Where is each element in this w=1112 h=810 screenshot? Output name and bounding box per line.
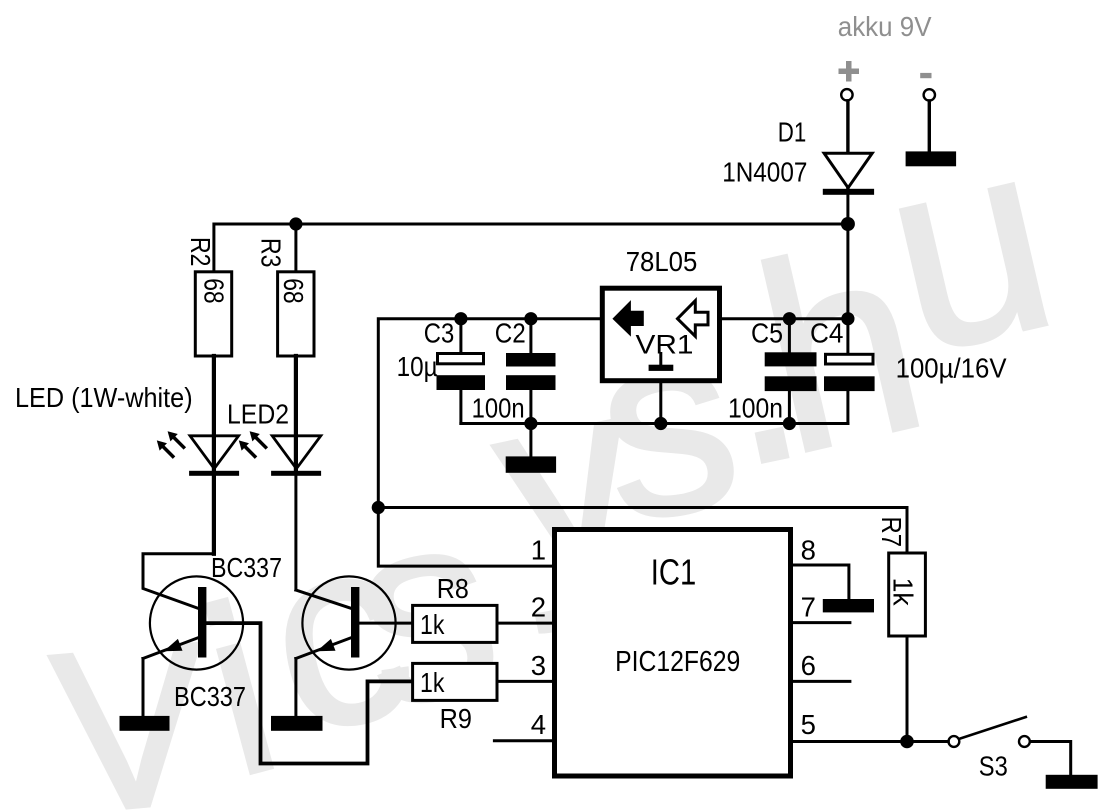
transistor Q1 (143, 554, 243, 717)
wire D1 to rail junction (846, 194, 849, 319)
svg-text:LED2: LED2 (227, 398, 289, 429)
LED1 cathode bar (189, 471, 239, 476)
wire top rail to R2/R3 (214, 224, 848, 272)
svg-text:PIC12F629: PIC12F629 (615, 646, 740, 678)
wire Q2 base to R8 (359, 622, 412, 625)
wire VR1 to gnd rail (659, 381, 662, 424)
wire pin6 stub (793, 680, 850, 683)
diode D1 triangle (824, 153, 872, 188)
node C4 (841, 312, 854, 325)
node gnd rail C5 (783, 417, 796, 430)
svg-text:D1: D1 (778, 116, 807, 147)
svg-text:R8: R8 (437, 573, 469, 604)
svg-text:4: 4 (531, 709, 546, 740)
diode D1 cathode bar (823, 189, 874, 195)
wire - terminal to ground (928, 101, 931, 152)
wire pin7 stub (793, 621, 850, 624)
plus terminal label (839, 61, 860, 82)
node gnd rail C2 (524, 417, 537, 430)
capacitor C3 (polarized) (459, 319, 462, 353)
svg-text:R9: R9 (440, 703, 472, 734)
ground (Q2 emitter) (271, 716, 323, 731)
ground (battery minus) (906, 151, 957, 166)
wire Q1 base to R9 (206, 623, 412, 763)
svg-text:R3: R3 (255, 238, 286, 268)
svg-text:C2: C2 (495, 317, 526, 348)
node C2 (524, 312, 537, 325)
ground (Q1 emitter) (120, 716, 170, 731)
svg-text:6: 6 (801, 650, 816, 681)
wire R7 top lead (906, 508, 909, 554)
resistor R2 body (195, 272, 231, 356)
svg-text:1k: 1k (420, 667, 445, 698)
LED2 cathode bar (271, 471, 321, 476)
svg-text:VR1: VR1 (636, 329, 694, 359)
wire switch to ground (1031, 742, 1071, 776)
VR1 output arrow (hollow) (678, 301, 709, 337)
svg-text:3: 3 (531, 650, 546, 681)
minus terminal circle (924, 89, 935, 100)
wire 5V rail left segment and drop to IC pin 1 (378, 319, 600, 566)
IC1 box (555, 530, 791, 777)
svg-text:68: 68 (278, 278, 309, 303)
node C5 (783, 312, 796, 325)
VR1 gnd pin bar (649, 365, 674, 371)
svg-text:1N4007: 1N4007 (722, 156, 807, 187)
ground (C2) (506, 456, 556, 472)
ground (pin8) (823, 599, 874, 612)
ground (S3) (1046, 775, 1098, 789)
wire R2 to LED1 (thick) (212, 356, 216, 470)
node C3 (454, 312, 467, 325)
svg-text:LED (1W-white): LED (1W-white) (15, 382, 193, 413)
LED2 emission arrows (250, 431, 266, 447)
svg-text:BC337: BC337 (174, 681, 246, 712)
switch S3 (949, 736, 960, 747)
node rail/pin1 drop (372, 501, 385, 514)
capacitor C2 (529, 319, 532, 353)
LED2 triangle (272, 436, 321, 469)
svg-text:10µ: 10µ (397, 351, 438, 382)
VR1 gnd pin stub (659, 354, 662, 366)
resistor R8 (413, 605, 497, 642)
wire LED1 cathode down (thick) (212, 476, 216, 554)
node R7/pin5 (900, 735, 914, 749)
wire 5V rail right segment (VR1 out to C5/C4) (722, 317, 849, 320)
svg-text:IC1: IC1 (651, 551, 696, 592)
svg-text:1k: 1k (420, 609, 445, 640)
svg-text:1k: 1k (888, 578, 919, 607)
transistor Q2 (296, 576, 396, 717)
wire pin4 stub (494, 739, 552, 742)
svg-text:R2: R2 (185, 237, 216, 267)
svg-text:7: 7 (801, 592, 816, 623)
wire LED2 cathode down (294, 476, 297, 590)
regulator VR1 box (602, 288, 719, 381)
svg-text:100µ/16V: 100µ/16V (896, 352, 1008, 383)
svg-text:R7: R7 (876, 517, 907, 548)
wire R3 to LED2 (thick) (294, 356, 298, 470)
gnd rail under regulator (461, 422, 848, 425)
wire R3 top (294, 224, 297, 272)
resistor R9 (413, 663, 497, 700)
wire R8 to pin2 (497, 622, 552, 625)
svg-text:1: 1 (531, 535, 546, 566)
svg-text:C4: C4 (810, 317, 844, 348)
svg-text:C3: C3 (424, 317, 455, 348)
VR1 input arrow (filled) (612, 300, 643, 337)
wire R9 to pin3 (497, 680, 552, 683)
wire pin8 to ground (793, 565, 849, 599)
node gnd rail VR1 (654, 417, 667, 430)
wire C2 node to ground (529, 424, 532, 458)
node D1/top rail (841, 217, 855, 231)
svg-text:100n: 100n (472, 392, 525, 423)
resistor R3 body (278, 272, 314, 356)
node R3 top (289, 217, 302, 230)
capacitor C4 (polarized) (846, 319, 849, 353)
svg-text:BC337: BC337 (211, 552, 282, 583)
minus terminal label (920, 73, 931, 78)
wire R7 to pin5 rail (906, 636, 909, 742)
wire 5V to R7 (horizontal) (378, 506, 907, 509)
svg-text:8: 8 (801, 535, 816, 566)
LED1 emission arrows (168, 431, 184, 447)
svg-text:5: 5 (801, 709, 816, 740)
LED1 triangle (190, 436, 239, 469)
svg-text:C5: C5 (751, 317, 783, 348)
svg-text:78L05: 78L05 (626, 246, 698, 277)
svg-text:S3: S3 (979, 751, 1008, 782)
svg-text:2: 2 (531, 592, 546, 623)
svg-text:68: 68 (199, 278, 230, 303)
svg-text:100n: 100n (728, 393, 783, 424)
resistor R7 (889, 553, 926, 636)
wire + terminal to D1 (846, 101, 849, 190)
plus terminal circle (841, 89, 852, 100)
svg-text:akku 9V: akku 9V (838, 11, 932, 42)
wire pin5 to switch (793, 740, 948, 743)
capacitor C5 (788, 319, 791, 353)
